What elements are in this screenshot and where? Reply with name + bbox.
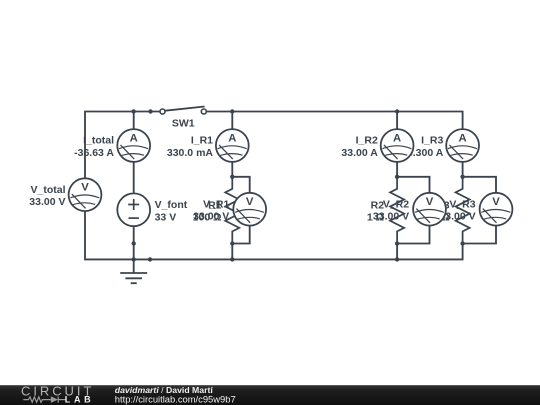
svg-text:V_R3: V_R3 bbox=[449, 198, 475, 210]
svg-text:I_total: I_total bbox=[83, 135, 114, 147]
svg-text:33.00 A: 33.00 A bbox=[341, 147, 378, 159]
svg-text:V: V bbox=[81, 182, 89, 194]
svg-text:http://circuitlab.com/c95w9b7: http://circuitlab.com/c95w9b7 bbox=[115, 393, 236, 404]
svg-text:A: A bbox=[393, 132, 401, 144]
svg-text:I_R2: I_R2 bbox=[356, 135, 378, 147]
svg-text:A: A bbox=[130, 132, 138, 144]
svg-text:A: A bbox=[228, 132, 236, 144]
svg-text:I_R1: I_R1 bbox=[191, 135, 213, 147]
svg-text:V_font: V_font bbox=[155, 199, 188, 211]
svg-text:330.0 mA: 330.0 mA bbox=[167, 147, 214, 159]
svg-text:V: V bbox=[492, 196, 500, 208]
svg-text:A: A bbox=[459, 132, 467, 144]
svg-text:SW1: SW1 bbox=[172, 117, 195, 129]
svg-text:-36.63 A: -36.63 A bbox=[74, 147, 114, 159]
svg-text:V_total: V_total bbox=[30, 184, 65, 196]
svg-text:V: V bbox=[246, 196, 254, 208]
svg-text:33.00 V: 33.00 V bbox=[29, 196, 65, 208]
svg-text:33 V: 33 V bbox=[155, 211, 177, 223]
svg-text:V: V bbox=[426, 196, 434, 208]
svg-text:33.00 V: 33.00 V bbox=[193, 211, 229, 223]
svg-text:LAB: LAB bbox=[65, 395, 91, 405]
svg-text:V_R2: V_R2 bbox=[383, 198, 409, 210]
svg-text:V_R1: V_R1 bbox=[203, 198, 229, 210]
svg-text:I_R3: I_R3 bbox=[421, 135, 443, 147]
svg-text:33.00 V: 33.00 V bbox=[373, 211, 409, 223]
